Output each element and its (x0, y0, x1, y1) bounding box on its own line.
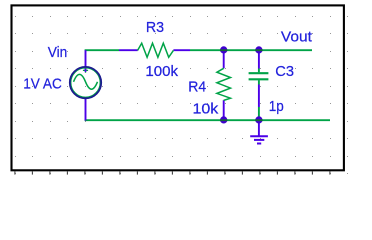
voltage source V1 (1V AC) (70, 50, 101, 120)
wire: top net R3->Vout end (190, 49, 312, 51)
svg-text:R3: R3 (146, 20, 164, 36)
svg-text:1p: 1p (269, 99, 284, 115)
wire: top net Vin->R3 (85, 49, 119, 51)
resistor R4 (217, 50, 231, 120)
wire crossing junction dots (dark band) (220, 50, 263, 120)
junction dot: R4 bottom (220, 116, 227, 123)
wire: bottom ground net (85, 119, 330, 121)
junction dot: C3 top (255, 46, 262, 53)
svg-text:1V AC: 1V AC (23, 76, 62, 92)
svg-text:Vin: Vin (48, 45, 68, 61)
junction dot: ground (255, 116, 262, 123)
svg-text:R4: R4 (188, 80, 206, 96)
ground (250, 120, 268, 143)
svg-text:Vout: Vout (281, 30, 312, 46)
svg-text:10k: 10k (193, 101, 220, 117)
capacitor C3 (249, 50, 269, 120)
junction dot: R4 top (220, 46, 227, 53)
resistor R3 (119, 43, 190, 57)
svg-text:100k: 100k (145, 64, 178, 80)
svg-text:C3: C3 (275, 64, 294, 80)
